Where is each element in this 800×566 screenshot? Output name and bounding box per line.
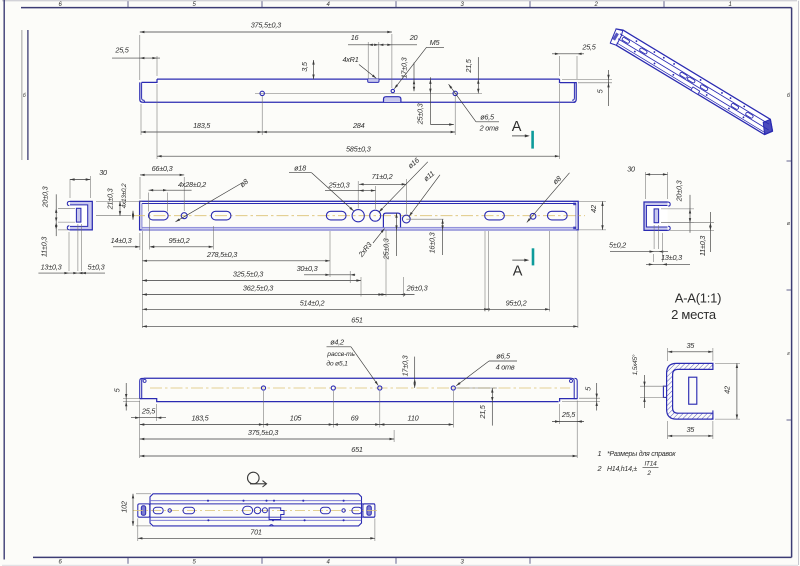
ext 701 a xyxy=(137,519,139,542)
plan hole d16 xyxy=(262,508,267,513)
dim 20R line xyxy=(689,195,691,233)
band2 slot 3 xyxy=(326,211,346,220)
ext 30L b xyxy=(89,176,91,198)
arrows 13±0.3R xyxy=(649,263,654,265)
ext 30R a xyxy=(645,172,647,199)
svg-text:362,5±0,3: 362,5±0,3 xyxy=(243,284,273,293)
band2 hole d18 xyxy=(352,210,364,222)
dim 5 right arrows xyxy=(607,75,609,80)
band2 bottom flange strip xyxy=(142,227,576,230)
right end view outer xyxy=(644,202,668,230)
svg-text:17±0,3: 17±0,3 xyxy=(400,57,409,78)
plan dot bottom row xyxy=(272,519,274,521)
svg-text:А-А(1:1): А-А(1:1) xyxy=(675,291,721,306)
band3 circle extension xyxy=(379,391,381,428)
dim 17 band1 xyxy=(400,57,416,91)
svg-text:2 места: 2 места xyxy=(671,307,717,322)
plan slot center-left xyxy=(243,506,253,514)
band1 left end inner xyxy=(142,82,145,102)
band2 ladder extension line xyxy=(403,277,405,297)
ext 42AA b xyxy=(715,418,740,420)
ext 11R a xyxy=(661,222,714,224)
dim 95±0.2 right band2 xyxy=(485,298,550,310)
ext hole1 down xyxy=(261,96,263,135)
band3 circle extension xyxy=(452,391,454,428)
band2 right inner line xyxy=(575,204,577,228)
svg-text:4x28±0,2: 4x28±0,2 xyxy=(178,180,206,189)
svg-text:16: 16 xyxy=(351,33,360,42)
svg-text:66±0,3: 66±0,3 xyxy=(152,164,173,173)
left end view outer xyxy=(70,201,92,230)
svg-text:102: 102 xyxy=(120,501,129,513)
svg-text:ø18: ø18 xyxy=(294,164,307,173)
ext 5R b xyxy=(658,225,660,249)
dim 102 line xyxy=(132,494,134,526)
svg-text:325,5±0,3: 325,5±0,3 xyxy=(233,270,263,279)
aux arrow xyxy=(449,123,454,125)
ext 5R bottom xyxy=(578,82,612,84)
plan dot top row xyxy=(302,500,304,502)
plan slot right2 xyxy=(352,507,362,514)
band3 chain arrows xyxy=(140,423,145,425)
dim 278,5±0,3 band2 xyxy=(142,250,330,262)
zone tick bottom xyxy=(127,557,129,563)
band3 top edge xyxy=(144,377,571,379)
band2 ladder extension line xyxy=(484,231,486,312)
svg-text:183,5: 183,5 xyxy=(191,414,209,423)
dim 514±0,2 band2 xyxy=(142,298,488,310)
leader d6.5 4otv xyxy=(456,361,489,386)
leader d11 xyxy=(409,175,440,217)
dim 5 left band3 arrows xyxy=(125,394,127,399)
dim chamfer line xyxy=(644,375,646,408)
band3 hole d4.2 #3 xyxy=(378,386,382,390)
svg-text:ø4,2: ø4,2 xyxy=(330,338,344,347)
leader d16 xyxy=(379,162,428,212)
band2 centerline xyxy=(133,215,585,217)
band1 right end inner xyxy=(572,83,574,101)
svg-text:514±0,2: 514±0,2 xyxy=(300,298,325,307)
plan left tab xyxy=(138,504,150,517)
plan slot right1 xyxy=(320,507,330,514)
zone tick right xyxy=(787,419,792,421)
band2 ladder extension line xyxy=(149,213,151,250)
sheet left edge line xyxy=(3,0,5,560)
ext 20R a xyxy=(661,208,694,210)
ext 5R a xyxy=(653,225,655,249)
ext 5 b xyxy=(80,224,82,271)
band1 hole d6.5 left xyxy=(260,91,264,95)
band3 left end double xyxy=(140,378,144,398)
svg-text:2: 2 xyxy=(597,464,602,473)
band2 ladder extension line xyxy=(577,231,579,328)
dim 26±0.3 band2 xyxy=(378,284,427,296)
dim 183.5 band1 xyxy=(141,121,262,133)
left end view bottom lip curl xyxy=(67,226,70,230)
band1 left step xyxy=(142,79,157,82)
ext d11 up xyxy=(405,179,407,214)
ext 11 b xyxy=(58,229,68,231)
svg-text:16±0,3: 16±0,3 xyxy=(428,232,437,253)
ext 4x28 left xyxy=(148,193,150,212)
plan slot 2 xyxy=(183,507,195,514)
leader d8 right xyxy=(527,173,570,223)
svg-text:375,5±0,3: 375,5±0,3 xyxy=(251,21,281,30)
dim 25 notch line xyxy=(395,213,397,256)
ext 102 a xyxy=(136,493,151,495)
svg-text:701: 701 xyxy=(250,528,262,537)
dim 585 xyxy=(157,145,560,158)
ext 16/20 mid xyxy=(378,42,380,79)
dim 3.5 xyxy=(300,60,315,79)
plan dot bottom row xyxy=(343,519,345,521)
ext 42 top xyxy=(579,200,606,202)
band2 corner hook tr xyxy=(573,203,576,206)
svg-text:21,5: 21,5 xyxy=(478,404,487,419)
svg-text:35: 35 xyxy=(686,425,695,434)
dim 25.5 left arrows xyxy=(140,57,145,59)
dim 5 right band3 arrows xyxy=(596,394,598,399)
left end view top lip curl xyxy=(67,201,70,205)
band1 top lance detail 4xR1 xyxy=(368,79,379,82)
band1 hole d6.5 right xyxy=(453,91,457,95)
dim 651 band2 xyxy=(142,315,578,327)
dim 25.5 left line xyxy=(112,57,160,59)
plan square notch with nub xyxy=(269,508,284,520)
band3 chain arrows xyxy=(264,423,269,425)
ext d11 center right xyxy=(406,218,443,220)
band2 ladder extension line xyxy=(549,231,551,312)
band2 ladder extension line xyxy=(329,231,331,277)
plan dot top row xyxy=(242,500,244,502)
svg-text:1,5x45°: 1,5x45° xyxy=(631,354,639,375)
svg-text:5±0,2: 5±0,2 xyxy=(609,241,626,250)
svg-text:Н14,h14,±: Н14,h14,± xyxy=(607,466,637,473)
ext 375.5 band3 xyxy=(393,430,395,442)
dim line x430 xyxy=(429,77,431,124)
ext 4x28 right xyxy=(167,193,169,212)
plan hole small left xyxy=(168,509,171,512)
svg-text:42: 42 xyxy=(723,386,732,394)
band2 slot 5 xyxy=(547,211,567,220)
left column line navy xyxy=(27,30,29,160)
dim 17±0.3 band3 xyxy=(401,355,416,388)
dim 5 left band3 line xyxy=(125,383,127,411)
arrows 13/5 left xyxy=(64,272,69,274)
svg-text:25,5: 25,5 xyxy=(561,410,576,419)
svg-text:25,5: 25,5 xyxy=(141,407,156,416)
aux line 25 xyxy=(430,124,453,126)
dim 375.5 xyxy=(140,21,392,34)
plan dot bottom row xyxy=(304,519,306,521)
band3 chain arrows xyxy=(333,423,338,425)
dim 4x28 line xyxy=(149,189,192,191)
ext band3 right edge down xyxy=(576,401,578,459)
svg-text:А: А xyxy=(513,264,523,280)
band3 corner hook left xyxy=(143,379,146,382)
dim 25.5 left band3 arrows xyxy=(135,417,140,419)
svg-text:651: 651 xyxy=(351,315,363,324)
plan dot top row xyxy=(273,500,275,502)
leader d6.5 xyxy=(449,84,476,122)
dim 701 xyxy=(138,528,375,540)
plan fold line bottom xyxy=(150,519,362,521)
ext hole2 down xyxy=(454,96,456,135)
zone tick top xyxy=(395,1,397,7)
ext 66 right / d8 center up xyxy=(183,177,185,211)
band3 circle extension xyxy=(263,391,265,428)
band2 square notch xyxy=(383,213,400,227)
zone tick bottom xyxy=(529,557,531,563)
svg-text:26±0,3: 26±0,3 xyxy=(406,284,428,293)
svg-text:4 отв: 4 отв xyxy=(496,363,515,372)
svg-text:5±0,3: 5±0,3 xyxy=(88,263,105,272)
svg-text:651: 651 xyxy=(351,445,363,454)
ext 13 a xyxy=(68,232,70,271)
isometric view of channel bracket xyxy=(608,27,777,139)
svg-text:20±0,3: 20±0,3 xyxy=(41,186,50,208)
plan right tab slot xyxy=(367,506,371,516)
section A top arrow xyxy=(512,135,528,137)
band3 hole d4.2 #1 xyxy=(261,386,265,390)
ext d16 up xyxy=(375,186,377,209)
ext 25.5R band3 a xyxy=(559,404,561,424)
dim 375.5 band3 xyxy=(140,428,394,440)
ext 30L a xyxy=(69,179,71,198)
svg-text:13±0,3: 13±0,3 xyxy=(661,253,682,262)
plan centerline xyxy=(133,510,380,512)
leader 2xR3 band2 xyxy=(373,229,385,244)
ext chamfer a xyxy=(640,385,665,387)
band3 corner hook right xyxy=(570,379,573,382)
ext 16 left xyxy=(367,42,369,79)
plan dot top row xyxy=(343,500,345,502)
ext 11R b xyxy=(670,229,714,231)
leader 4xR1 xyxy=(359,65,376,79)
ext M5 center xyxy=(391,34,393,88)
svg-text:1: 1 xyxy=(728,2,731,8)
svg-text:4xR1: 4xR1 xyxy=(342,55,358,64)
A-A section web lip bump xyxy=(663,386,666,397)
dim 14 shelf line xyxy=(113,246,140,248)
ext 66 left xyxy=(139,177,141,199)
band1 part top edge xyxy=(157,78,560,80)
svg-text:585±0,3: 585±0,3 xyxy=(346,145,371,154)
band1 left end outer xyxy=(140,82,143,102)
plan dot top row xyxy=(265,500,267,502)
band2 corner hook br xyxy=(573,227,576,230)
ext 5L band3 a xyxy=(123,398,140,400)
svg-text:ø6,5: ø6,5 xyxy=(496,352,511,361)
ext 25.5R a xyxy=(559,56,561,76)
plan hole d18 xyxy=(254,507,261,514)
dim 5 right band3 line xyxy=(596,383,598,411)
plan outline body xyxy=(150,494,362,526)
svg-text:95±0,2: 95±0,2 xyxy=(169,236,190,245)
svg-text:11±0,3: 11±0,3 xyxy=(698,236,707,256)
band1 hole M5 xyxy=(391,89,394,92)
frame right line xyxy=(791,8,793,558)
arrows 5±0.2 xyxy=(650,250,655,252)
sheet outer edge bottom xyxy=(2,564,798,566)
ext 25.5R b xyxy=(576,56,578,79)
ext 14 left xyxy=(139,233,141,250)
svg-text:17±0,3: 17±0,3 xyxy=(401,355,410,376)
svg-text:11±0,3: 11±0,3 xyxy=(40,237,49,257)
ext 35B a xyxy=(667,421,669,439)
A-A section C profile hatched xyxy=(667,363,713,419)
dim 42 band2 xyxy=(589,201,604,230)
dim 325,5±0,3 band2 xyxy=(142,270,361,282)
ext 13 b xyxy=(77,224,79,271)
dim 21.5 band1 xyxy=(464,57,480,93)
plan dot top row xyxy=(207,500,209,502)
ext 5L band3 b xyxy=(123,401,140,403)
A-A flange tip tick bottom xyxy=(712,410,714,413)
svg-text:1: 1 xyxy=(598,449,602,458)
svg-text:14±0,3: 14±0,3 xyxy=(111,236,132,245)
ext 35T b xyxy=(712,348,714,361)
dim 30 left line xyxy=(70,178,90,180)
ext 701 b xyxy=(374,519,376,542)
band1 bottom edge xyxy=(143,101,576,103)
ext 25.5L band3 xyxy=(156,404,158,421)
ext centerline left xyxy=(96,215,131,217)
dim 35 bottom xyxy=(668,425,713,437)
band2 ladder extension line xyxy=(141,231,143,328)
svg-text:278,5±0,3: 278,5±0,3 xyxy=(206,250,237,259)
right end view lip rect xyxy=(654,209,659,223)
svg-text:4x13±0,2: 4x13±0,2 xyxy=(121,183,128,208)
plan fold line top xyxy=(150,500,362,502)
zone tick right xyxy=(787,160,792,162)
svg-text:А: А xyxy=(512,119,522,135)
svg-text:3,5: 3,5 xyxy=(300,61,309,72)
svg-text:25,5: 25,5 xyxy=(581,43,596,52)
ext 183.5 left xyxy=(140,104,142,135)
band3 chain dim line xyxy=(140,424,454,426)
leader d8 left xyxy=(176,183,243,222)
band3 chain arrows xyxy=(380,423,385,425)
svg-text:42: 42 xyxy=(589,205,598,213)
sheet outer edge top xyxy=(2,0,797,2)
dim 25 arrows xyxy=(359,189,376,191)
ext 13R b xyxy=(661,233,663,262)
svg-text:183,5: 183,5 xyxy=(193,121,211,130)
dim 16/20 line xyxy=(348,44,417,46)
section A mark top bar xyxy=(531,131,534,149)
ext 20 b xyxy=(58,221,75,223)
dim 21.5 band3 xyxy=(478,388,494,426)
dim 25.5 right line xyxy=(552,53,584,55)
dim 25.5 left band3 line xyxy=(131,417,166,419)
svg-text:*Размеры для справок: *Размеры для справок xyxy=(607,450,676,458)
ext 5R band3 a xyxy=(579,397,600,399)
ext 585 right xyxy=(559,84,561,159)
leader d18 xyxy=(312,173,354,211)
svg-text:105: 105 xyxy=(290,414,303,423)
svg-text:рассв-ть: рассв-ть xyxy=(326,351,355,358)
left end view lip rect xyxy=(76,208,81,222)
svg-text:30: 30 xyxy=(627,165,635,174)
band2 part outline xyxy=(140,201,579,230)
band3 hole d4.2 #4 xyxy=(451,386,455,390)
arrows 11 left xyxy=(55,222,57,227)
dim 71 xyxy=(359,172,406,186)
leader M5 xyxy=(394,47,426,89)
band3 left step and bottom edge xyxy=(140,399,559,402)
band1 hole axis line xyxy=(255,92,482,94)
band2 ladder extension line xyxy=(212,226,214,250)
band1 right step and end xyxy=(560,79,577,102)
left column line gray xyxy=(21,30,23,160)
ext 30R b xyxy=(667,172,669,199)
plan right tab xyxy=(363,504,375,517)
svg-text:ø6,5: ø6,5 xyxy=(480,113,495,122)
dim 16±0.3 xyxy=(442,219,444,255)
band3 hole d4.2 #2 xyxy=(331,386,335,390)
band2 hole d11 xyxy=(402,215,410,223)
dim 5 right line xyxy=(608,70,610,106)
ext 585 left xyxy=(156,84,158,159)
svg-text:21±0,3: 21±0,3 xyxy=(106,188,115,210)
band3 right step xyxy=(560,399,578,402)
plan slot 1 xyxy=(153,507,163,514)
dim 16/20 arrows xyxy=(368,44,373,46)
ext 25.5L b xyxy=(156,56,158,76)
ext 35B b xyxy=(712,421,714,439)
rotated-view symbol xyxy=(248,472,267,487)
band2 ladder extension line xyxy=(349,271,351,283)
svg-text:20: 20 xyxy=(409,33,418,42)
ext 42AA a xyxy=(715,362,740,364)
svg-text:13±0,3: 13±0,3 xyxy=(41,263,62,272)
section A bottom arrow xyxy=(512,259,527,261)
band2 top inner line xyxy=(142,203,576,205)
dim 362,5±0,3 band2 xyxy=(142,284,386,296)
band1 lanced tab 2xR3 xyxy=(384,97,401,102)
ext 102 b xyxy=(136,525,151,527)
plan dot bottom row xyxy=(207,519,209,521)
svg-text:284: 284 xyxy=(352,121,365,130)
A-A flange tip tick top xyxy=(712,363,714,366)
dim 14 outside arrows xyxy=(135,246,140,248)
svg-text:2 отв: 2 отв xyxy=(479,124,499,133)
band2 ladder extension line xyxy=(360,277,362,297)
ext 20R b xyxy=(661,222,694,224)
svg-text:71±0,2: 71±0,2 xyxy=(372,172,393,181)
band2 ladder extension line xyxy=(488,231,490,312)
svg-text:в: в xyxy=(787,221,790,227)
dim 25.5 right band3 line xyxy=(552,421,584,423)
sheet outer edge right xyxy=(797,1,799,565)
dim 42 A-A xyxy=(723,363,739,419)
svg-text:30: 30 xyxy=(99,168,107,177)
band2 slot 4 xyxy=(485,211,505,220)
dim 95±0,2 band2 xyxy=(150,236,214,248)
ext chamfer b xyxy=(640,396,665,398)
band2 left inner line xyxy=(141,204,143,228)
ext 21.5 top xyxy=(455,387,497,389)
dim 35 top xyxy=(668,341,713,353)
zone tick top xyxy=(529,1,531,7)
dim 30 right line xyxy=(646,173,668,175)
band2 slot 1 xyxy=(148,211,168,220)
dim 30±0.3 band2 xyxy=(297,264,356,276)
ext 5R band3 b xyxy=(562,400,600,402)
svg-text:21,5: 21,5 xyxy=(464,58,473,73)
zone tick top xyxy=(261,1,263,7)
